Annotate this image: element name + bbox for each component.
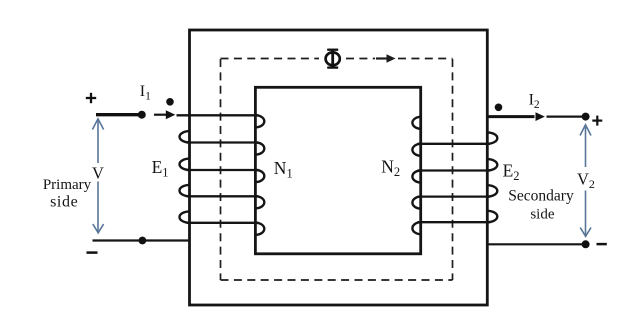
secondary winding outer-side loop arcs bbox=[487, 132, 497, 222]
secondary bottom return wire bbox=[487, 243, 583, 245]
flux label PHI bbox=[326, 49, 340, 68]
primary top input wire (thick) bbox=[96, 113, 142, 116]
svg-text:Primary: Primary bbox=[43, 177, 92, 193]
current I1 arrowhead bbox=[166, 110, 176, 119]
secondary + terminal dot bbox=[582, 113, 590, 121]
secondary winding inner-side loop arcs bbox=[412, 117, 421, 234]
svg-text:V: V bbox=[92, 164, 104, 183]
junction dot on primary input bbox=[138, 111, 146, 119]
secondary - polarity sign bbox=[597, 243, 607, 246]
primary voltage arrow V (double headed, blue) bbox=[92, 119, 103, 233]
wire to secondary + terminal bbox=[547, 115, 584, 117]
secondary + polarity sign bbox=[592, 116, 602, 126]
primary bottom return wire bbox=[93, 239, 190, 241]
current I2 arrowhead bbox=[536, 112, 545, 121]
junction dot on primary return bbox=[139, 237, 147, 245]
svg-text:Secondary: Secondary bbox=[508, 188, 574, 205]
primary - polarity sign bbox=[87, 251, 98, 254]
primary polarity dot bbox=[166, 98, 174, 106]
primary winding left-side loop arcs bbox=[180, 131, 190, 223]
secondary - terminal dot bbox=[582, 240, 590, 248]
secondary voltage arrow V2 (double headed, blue) bbox=[580, 125, 591, 237]
primary winding horizontal turns bbox=[187, 143, 259, 223]
secondary winding horizontal turns bbox=[418, 144, 491, 222]
flux direction arrow bbox=[376, 57, 389, 59]
current I1 arrow shaft bbox=[154, 114, 166, 116]
svg-text:side: side bbox=[50, 194, 78, 211]
transformer core outer boundary bbox=[190, 30, 488, 305]
wire into primary winding bbox=[177, 114, 259, 116]
primary winding right-side loop arcs bbox=[256, 115, 265, 235]
secondary top output wire (thick) bbox=[487, 115, 534, 118]
flux path dashed loop bbox=[221, 59, 453, 281]
transformer core inner window bbox=[255, 87, 420, 254]
primary + polarity sign bbox=[86, 93, 96, 103]
svg-text:side: side bbox=[530, 207, 555, 223]
secondary polarity dot bbox=[495, 104, 503, 112]
